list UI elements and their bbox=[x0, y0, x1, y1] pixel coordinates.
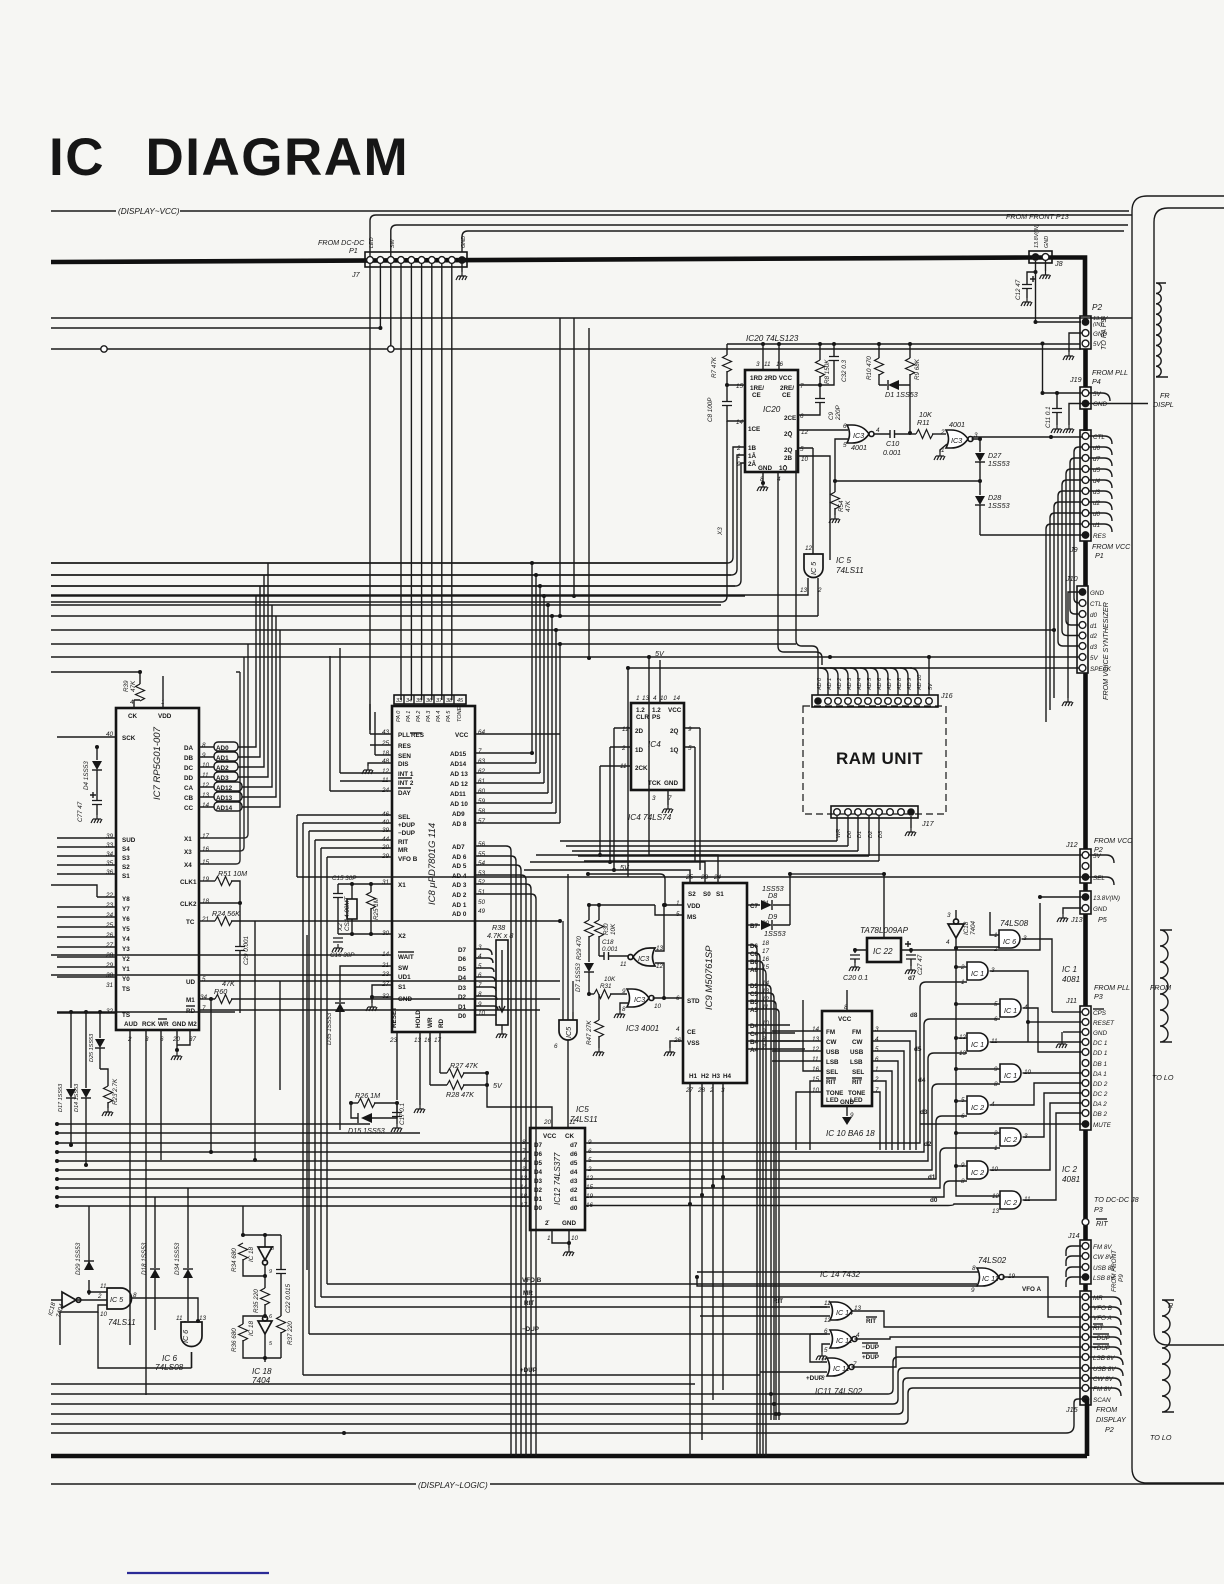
svg-text:FROM FRONT: FROM FRONT bbox=[1111, 1249, 1118, 1292]
wire inverter input from 13.8V riser bbox=[955, 910, 957, 948]
svg-text:47K: 47K bbox=[130, 680, 137, 692]
wire UD1 long bbox=[51, 974, 392, 976]
wire MR line bbox=[321, 1296, 1082, 1298]
wire J7 pins down bbox=[369, 264, 371, 730]
svg-text:34: 34 bbox=[200, 994, 208, 1001]
wire IC3 input5 down to R54 line bbox=[835, 439, 848, 481]
svg-text:TCK: TCK bbox=[648, 780, 661, 787]
capacitor C8 100P bbox=[727, 385, 745, 421]
gate IC14 7432 bbox=[820, 1270, 862, 1324]
wire RIT line bbox=[315, 1306, 827, 1308]
gate IC1 c bbox=[959, 1033, 998, 1057]
svg-text:AD11: AD11 bbox=[450, 791, 466, 798]
svg-text:D5: D5 bbox=[534, 1160, 543, 1167]
svg-text:31: 31 bbox=[106, 982, 113, 989]
svg-text:WR: WR bbox=[427, 1017, 434, 1028]
svg-text:DB 2: DB 2 bbox=[1093, 1111, 1107, 1118]
wire extra left lines bbox=[57, 1124, 420, 1133]
svg-text:+DUP: +DUP bbox=[862, 1354, 879, 1361]
svg-text:D25 1SS53: D25 1SS53 bbox=[89, 1033, 95, 1062]
svg-text:3: 3 bbox=[756, 361, 760, 368]
svg-text:RIT: RIT bbox=[524, 1300, 534, 1307]
svg-text:LED: LED bbox=[826, 1097, 839, 1104]
svg-text:GND: GND bbox=[398, 996, 412, 1003]
svg-text:38: 38 bbox=[446, 698, 453, 704]
svg-text:d7: d7 bbox=[1093, 456, 1101, 463]
svg-text:AD 2: AD 2 bbox=[452, 892, 467, 899]
svg-text:DB: DB bbox=[184, 755, 194, 762]
svg-text:DC 1: DC 1 bbox=[1093, 1040, 1107, 1047]
wire IC10 VCC up bbox=[846, 990, 848, 1011]
wire IC20 pin10 down bbox=[798, 456, 830, 560]
wire bottom bus lines left bbox=[51, 1384, 695, 1433]
svg-text:D7 1SS53: D7 1SS53 bbox=[575, 963, 582, 992]
ground (IC3 input1) bbox=[940, 444, 947, 452]
svg-text:PS: PS bbox=[652, 714, 660, 721]
svg-text:25: 25 bbox=[381, 740, 390, 747]
svg-text:4: 4 bbox=[876, 427, 880, 434]
svg-text:1Ā: 1Ā bbox=[748, 452, 757, 460]
svg-text:8: 8 bbox=[202, 742, 206, 749]
IC8 top pins bbox=[394, 695, 471, 722]
gate IC2 b bbox=[993, 1128, 1028, 1152]
svg-text:D1: D1 bbox=[534, 1196, 543, 1203]
wire IC22 top to 5V bbox=[883, 874, 885, 938]
wire J7 LED up and right bbox=[370, 215, 1132, 256]
svg-text:10K: 10K bbox=[610, 923, 617, 935]
svg-text:D1: D1 bbox=[458, 1004, 467, 1011]
svg-text:H2: H2 bbox=[701, 1073, 710, 1080]
svg-text:USB: USB bbox=[826, 1049, 840, 1056]
svg-text:d8: d8 bbox=[910, 1012, 918, 1019]
svg-text:R35 220: R35 220 bbox=[253, 1289, 260, 1313]
wire 13.8V rail to P2 bbox=[51, 317, 1132, 319]
capacitor C12 47 bbox=[1027, 272, 1036, 298]
wire J7 pin10 up and right bbox=[462, 231, 1124, 252]
svg-text:11: 11 bbox=[569, 1119, 576, 1126]
wire IC3 mirrored pins bbox=[655, 905, 664, 998]
wire CE left bbox=[660, 1021, 683, 1031]
svg-text:5: 5 bbox=[824, 1347, 828, 1354]
svg-text:H1: H1 bbox=[689, 1073, 698, 1080]
svg-text:AD7: AD7 bbox=[452, 844, 465, 851]
wire WAIT long bbox=[51, 954, 392, 956]
svg-text:IC5: IC5 bbox=[564, 1026, 573, 1038]
svg-text:RD: RD bbox=[438, 1018, 445, 1028]
svg-text:3: 3 bbox=[478, 944, 482, 951]
wire +DUP line bbox=[303, 1374, 760, 1376]
svg-text:21: 21 bbox=[201, 916, 209, 923]
svg-text:SCK: SCK bbox=[122, 735, 136, 742]
svg-text:WR: WR bbox=[158, 1021, 169, 1028]
wire J12 5V long left bbox=[649, 854, 1082, 856]
svg-text:4: 4 bbox=[875, 1036, 879, 1043]
wire long node line y481 bbox=[835, 480, 980, 482]
wire IC1a out bbox=[990, 971, 1029, 1042]
diode D18 1SS53 bbox=[154, 1197, 156, 1330]
ground (IC8 GND pin32) bbox=[372, 985, 392, 1003]
svg-text:LSB: LSB bbox=[850, 1059, 863, 1066]
gate IC11 b bbox=[820, 1357, 857, 1382]
svg-text:61: 61 bbox=[478, 778, 485, 785]
capacitor C11 0.1 bbox=[1056, 393, 1058, 425]
wire IC6 output bbox=[1022, 939, 1053, 1012]
svg-text:1D: 1D bbox=[635, 747, 644, 754]
svg-text:4001: 4001 bbox=[851, 443, 867, 452]
svg-text:IC DIAGRAM: IC DIAGRAM bbox=[49, 128, 409, 187]
svg-text:FROM DC-DC: FROM DC-DC bbox=[318, 238, 365, 247]
capacitor C29 0.001 bbox=[239, 903, 241, 1013]
svg-text:5: 5 bbox=[875, 1046, 879, 1053]
wire IC20 left pins to left bus bbox=[51, 447, 745, 563]
svg-text:J10: J10 bbox=[1065, 574, 1078, 583]
svg-text:D2: D2 bbox=[534, 1187, 543, 1194]
svg-text:R31: R31 bbox=[600, 983, 612, 990]
connector J17 bbox=[831, 806, 935, 838]
wire IC9 right data pins bbox=[747, 945, 766, 1456]
svg-text:MR: MR bbox=[398, 847, 408, 854]
wire RD long bbox=[199, 1009, 540, 1011]
resistor R10 470 bbox=[878, 344, 880, 385]
gate IC6 74LS08 (bottom) bbox=[155, 1315, 207, 1372]
svg-text:25: 25 bbox=[105, 922, 114, 929]
svg-text:VFO A: VFO A bbox=[1093, 1315, 1112, 1322]
wire D17/D14 bottoms join bus bbox=[69, 1143, 73, 1147]
svg-text:DISPLAY: DISPLAY bbox=[1096, 1415, 1127, 1424]
wire J10 left loops bbox=[1041, 609, 1079, 646]
svg-text:1SS53: 1SS53 bbox=[988, 459, 1010, 468]
svg-text:SEL: SEL bbox=[826, 1069, 838, 1076]
capacitor C17 0.1 bbox=[396, 1103, 398, 1124]
svg-text:−DUP: −DUP bbox=[522, 1326, 539, 1333]
svg-text:AD15: AD15 bbox=[450, 751, 467, 758]
wire 5V rail over IC20 bbox=[727, 343, 1080, 345]
svg-text:5: 5 bbox=[269, 1341, 273, 1347]
svg-text:AD 1: AD 1 bbox=[452, 902, 467, 909]
IC12 74LS377 bbox=[520, 1119, 594, 1242]
svg-text:R25 1M: R25 1M bbox=[373, 897, 380, 920]
wire J15 pin loops right bbox=[1089, 1297, 1123, 1396]
gate IC1 a bbox=[960, 962, 995, 986]
svg-text:D35 1SS53: D35 1SS53 bbox=[326, 1012, 333, 1045]
svg-text:RIT: RIT bbox=[866, 1318, 876, 1325]
diode D27 1SS53 bbox=[979, 439, 981, 452]
svg-text:CK: CK bbox=[128, 713, 138, 720]
svg-text:2RE/: 2RE/ bbox=[780, 385, 794, 392]
svg-text:18: 18 bbox=[762, 940, 770, 947]
svg-text:15: 15 bbox=[736, 383, 744, 390]
svg-text:IC20: IC20 bbox=[763, 405, 781, 414]
gate IC5 74LS11 (lower) bbox=[554, 1020, 577, 1050]
wire J14 arcs left bbox=[1066, 1246, 1082, 1287]
svg-text:PLL: PLL bbox=[398, 732, 410, 739]
wire IC9 H-pin junction dots bbox=[688, 1202, 692, 1206]
wire MUTE long left bbox=[920, 1123, 1082, 1125]
svg-text:39: 39 bbox=[106, 833, 114, 840]
svg-text:TO PA P9: TO PA P9 bbox=[1099, 319, 1108, 350]
wire IC8 bottom stubs bbox=[397, 1032, 440, 1100]
svg-text:74LS08: 74LS08 bbox=[1000, 919, 1029, 928]
svg-text:P3: P3 bbox=[1094, 992, 1103, 1001]
svg-text:2Q: 2Q bbox=[784, 447, 793, 454]
IC7 RP5G01-007 bbox=[116, 699, 199, 1030]
svg-text:11: 11 bbox=[620, 961, 627, 968]
wire 13.8V from J8 down to P2 bbox=[1036, 261, 1082, 322]
svg-text:X3: X3 bbox=[184, 849, 192, 856]
svg-text:−DUP: −DUP bbox=[1093, 1335, 1111, 1342]
svg-text:d6: d6 bbox=[1093, 445, 1101, 452]
svg-text:IC5: IC5 bbox=[576, 1105, 589, 1114]
svg-text:D29 1SS53: D29 1SS53 bbox=[75, 1242, 82, 1275]
svg-text:C17 0.1: C17 0.1 bbox=[399, 1103, 406, 1125]
resistor R26 1M bbox=[351, 1102, 358, 1104]
svg-text:2: 2 bbox=[940, 429, 945, 436]
wire bus group B bbox=[51, 605, 818, 616]
resistor R60 47K bbox=[199, 998, 211, 1000]
svg-text:D3: D3 bbox=[458, 985, 467, 992]
svg-text:RIT: RIT bbox=[773, 1298, 783, 1305]
svg-text:IC 14: IC 14 bbox=[836, 1308, 853, 1317]
svg-text:UD1: UD1 bbox=[398, 974, 411, 981]
svg-text:Y2: Y2 bbox=[122, 956, 130, 963]
svg-text:X1: X1 bbox=[184, 836, 192, 843]
svg-text:C29 0.001: C29 0.001 bbox=[243, 936, 250, 965]
ground (IC9 VSS) bbox=[670, 1041, 683, 1048]
IC20 74LS123 bbox=[736, 334, 809, 483]
svg-text:TONE: TONE bbox=[826, 1090, 843, 1097]
svg-text:58: 58 bbox=[478, 808, 486, 815]
svg-text:J15: J15 bbox=[1065, 1405, 1079, 1414]
IC7 bottom pins bbox=[124, 1019, 197, 1043]
svg-text:CTL: CTL bbox=[1093, 434, 1105, 441]
svg-text:VCC: VCC bbox=[668, 707, 682, 714]
svg-text:C22 0.015: C22 0.015 bbox=[285, 1283, 292, 1313]
wire RES long left bbox=[980, 534, 1082, 536]
svg-text:IC3: IC3 bbox=[951, 436, 962, 445]
svg-text:S3: S3 bbox=[122, 855, 130, 862]
wire VFO B line bbox=[327, 1283, 977, 1285]
svg-text:36: 36 bbox=[426, 698, 433, 704]
IC7 left pins bbox=[105, 731, 136, 1019]
svg-text:CSA4.00MT: CSA4.00MT bbox=[344, 896, 351, 931]
wire IC4 pins bbox=[600, 728, 700, 766]
svg-text:8: 8 bbox=[478, 991, 482, 998]
ground (J7 GND pin) bbox=[456, 272, 467, 280]
svg-text:FROM PLL: FROM PLL bbox=[1092, 368, 1128, 377]
wire AD cable to J16 bbox=[796, 450, 818, 695]
svg-text:SEL: SEL bbox=[852, 1069, 864, 1076]
resistor R47 27K bbox=[598, 994, 600, 1048]
wire J11 pins left bbox=[1028, 1012, 1082, 1040]
ground (IC4 GND) bbox=[667, 790, 669, 805]
IC4 74LS74 bbox=[620, 695, 692, 822]
svg-text:35: 35 bbox=[416, 698, 423, 704]
svg-text:d1: d1 bbox=[570, 1196, 578, 1203]
svg-text:5V: 5V bbox=[1093, 391, 1102, 398]
connector J15 FROM DISPLAY P2 bbox=[1065, 1291, 1127, 1434]
wire J19 GND loop right bbox=[1089, 393, 1110, 401]
svg-text:J17: J17 bbox=[921, 819, 935, 828]
svg-text:36: 36 bbox=[106, 869, 114, 876]
wire rail B with junction bbox=[51, 327, 380, 329]
svg-text:P2: P2 bbox=[1092, 303, 1102, 312]
svg-text:AD 5: AD 5 bbox=[452, 863, 467, 870]
wire J17 drops left bbox=[837, 816, 879, 861]
svg-text:J7: J7 bbox=[351, 270, 361, 279]
svg-text:0.001: 0.001 bbox=[602, 946, 618, 953]
svg-text:CPS: CPS bbox=[1093, 1010, 1107, 1017]
wire IC10 right pins bbox=[872, 1031, 916, 1150]
wire IC6 inputs bbox=[956, 912, 999, 947]
svg-text:CLR: CLR bbox=[636, 714, 649, 721]
wire thick drop from SCAN to bottom bus bbox=[1085, 1399, 1090, 1456]
svg-text:J8: J8 bbox=[1054, 259, 1063, 268]
svg-text:MR: MR bbox=[523, 1290, 533, 1297]
svg-text:IC 6: IC 6 bbox=[1003, 937, 1016, 946]
resistor R36 680 bbox=[243, 1316, 265, 1324]
svg-text:GND: GND bbox=[664, 780, 678, 787]
svg-text:FROM VCC: FROM VCC bbox=[1094, 836, 1133, 845]
svg-text:3: 3 bbox=[974, 432, 978, 439]
svg-text:R11: R11 bbox=[917, 418, 930, 427]
svg-text:1SS53: 1SS53 bbox=[764, 929, 786, 938]
svg-text:AUD: AUD bbox=[124, 1021, 138, 1028]
ground (J8 GND) bbox=[1045, 261, 1047, 271]
svg-text:D6: D6 bbox=[458, 956, 467, 963]
svg-text:B7: B7 bbox=[750, 923, 759, 930]
svg-text:TO DC-DC J8: TO DC-DC J8 bbox=[1094, 1195, 1139, 1204]
svg-text:Y5: Y5 bbox=[122, 926, 130, 933]
svg-text:C10: C10 bbox=[886, 439, 899, 448]
svg-text:IC 1: IC 1 bbox=[971, 1040, 984, 1049]
svg-text:DD 2: DD 2 bbox=[1093, 1081, 1108, 1088]
svg-text:IC 11: IC 11 bbox=[836, 1336, 853, 1345]
ground (IC10 GND) bbox=[846, 1106, 848, 1116]
svg-text:S1: S1 bbox=[398, 984, 406, 991]
svg-text:8: 8 bbox=[972, 1265, 976, 1272]
svg-text:13: 13 bbox=[199, 1315, 207, 1322]
svg-text:GND: GND bbox=[172, 1021, 186, 1028]
svg-text:IC 22: IC 22 bbox=[873, 947, 893, 956]
wire +DUP -DUP RIT MR VFOB drops bbox=[303, 823, 327, 1375]
svg-text:UD: UD bbox=[186, 979, 196, 986]
wire bottom thick bus bbox=[51, 1454, 1087, 1459]
svg-text:FM: FM bbox=[826, 1029, 835, 1036]
svg-text:FROM VOICE SYNTHESIZER: FROM VOICE SYNTHESIZER bbox=[1101, 602, 1110, 700]
wire bus group D 5V bbox=[51, 657, 649, 672]
svg-text:RIT: RIT bbox=[852, 1079, 862, 1086]
svg-text:CLK2: CLK2 bbox=[180, 901, 197, 908]
svg-text:+DUP: +DUP bbox=[520, 1367, 537, 1374]
svg-text:1Q̄: 1Q̄ bbox=[779, 463, 788, 472]
svg-text:2̄: 2̄ bbox=[545, 1219, 550, 1227]
svg-text:P1: P1 bbox=[349, 246, 358, 255]
svg-text:CW 8V: CW 8V bbox=[1093, 1376, 1114, 1383]
svg-text:D18 1SS53: D18 1SS53 bbox=[141, 1242, 148, 1275]
svg-text:D4: D4 bbox=[458, 975, 467, 982]
wire SEN DIS risers bbox=[330, 648, 375, 791]
ground (IC7 GND) bbox=[177, 1030, 190, 1050]
svg-text:RESET: RESET bbox=[391, 1007, 398, 1028]
svg-text:CE: CE bbox=[752, 392, 761, 399]
svg-text:SEL: SEL bbox=[1093, 875, 1105, 882]
svg-text:11: 11 bbox=[812, 1056, 819, 1063]
svg-text:VFO B: VFO B bbox=[522, 1277, 542, 1284]
wire J9 d-lines loop down to J10 bbox=[1074, 447, 1082, 603]
resistor R7 47K bbox=[727, 344, 745, 385]
svg-text:FM: FM bbox=[852, 1029, 861, 1036]
svg-text:IC3 4001: IC3 4001 bbox=[626, 1024, 659, 1033]
wire IC7 left pin stubs bbox=[57, 737, 116, 1013]
svg-text:FROM VCC: FROM VCC bbox=[1092, 542, 1131, 551]
wire bus group A bbox=[51, 563, 745, 596]
resistor R11 10K bbox=[910, 433, 916, 435]
diode D1 1SS53 bbox=[879, 384, 910, 386]
svg-text:TS: TS bbox=[122, 986, 130, 993]
svg-text:d2: d2 bbox=[570, 1187, 578, 1194]
wire IC5 output bbox=[131, 1298, 198, 1321]
wire right outer cable outline bbox=[1132, 196, 1224, 1483]
svg-text:16: 16 bbox=[762, 956, 770, 963]
wire IC7 bottom pin drops bbox=[130, 1030, 161, 1395]
svg-text:2D: 2D bbox=[635, 728, 644, 735]
svg-text:IC12 74LS377: IC12 74LS377 bbox=[553, 1152, 562, 1205]
svg-text:IC 1: IC 1 bbox=[971, 969, 984, 978]
svg-text:2: 2 bbox=[820, 1357, 825, 1364]
svg-text:C77 47: C77 47 bbox=[77, 801, 84, 822]
svg-text:DA 1: DA 1 bbox=[1093, 1071, 1107, 1078]
wire IC12 d outputs right to gate bends bbox=[585, 977, 936, 1143]
svg-text:17: 17 bbox=[202, 833, 210, 840]
svg-text:H3: H3 bbox=[712, 1073, 721, 1080]
wire scallop bundle mid bbox=[1160, 930, 1172, 1042]
wire IC20 pin12 to IC3 input bbox=[798, 429, 848, 431]
svg-text:CB: CB bbox=[184, 795, 194, 802]
wire mid verticals group bbox=[320, 620, 340, 815]
svg-text:IC 2: IC 2 bbox=[1062, 1165, 1077, 1174]
gate IC1 d bbox=[994, 1064, 1032, 1088]
svg-text:FM 8V: FM 8V bbox=[1093, 1386, 1112, 1393]
svg-text:IC 14 7432: IC 14 7432 bbox=[820, 1270, 861, 1279]
wire bus group C bbox=[51, 630, 1054, 644]
svg-text:5V: 5V bbox=[1093, 853, 1102, 860]
svg-text:14: 14 bbox=[202, 802, 210, 809]
svg-text:GND: GND bbox=[1044, 236, 1050, 248]
svg-text:IC3: IC3 bbox=[634, 995, 645, 1004]
svg-text:16: 16 bbox=[812, 1066, 820, 1073]
wire D7-D0 into R38 bbox=[475, 949, 498, 1015]
svg-text:d2: d2 bbox=[1090, 633, 1098, 640]
svg-text:R54: R54 bbox=[838, 500, 845, 512]
svg-text:1.2: 1.2 bbox=[652, 707, 661, 714]
svg-text:d7: d7 bbox=[570, 1142, 578, 1149]
wire right inner cable outline bbox=[1154, 208, 1224, 1345]
gate IC3 4001 (right) bbox=[940, 420, 978, 454]
svg-text:43: 43 bbox=[382, 729, 390, 736]
svg-text:(DISPLAY~VCC): (DISPLAY~VCC) bbox=[118, 207, 180, 216]
svg-text:FROM FRONT P13: FROM FRONT P13 bbox=[1006, 212, 1069, 221]
wire SEL drop to J12 bbox=[296, 815, 298, 877]
svg-text:R30: R30 bbox=[603, 923, 610, 935]
gate IC6 74LS08 bbox=[993, 919, 1029, 953]
svg-text:10: 10 bbox=[812, 1087, 820, 1094]
resistor R54 47K bbox=[834, 481, 836, 515]
svg-text:Y4: Y4 bbox=[122, 936, 130, 943]
svg-text:220P: 220P bbox=[835, 404, 842, 421]
svg-text:VCC: VCC bbox=[543, 1133, 557, 1140]
svg-text:4001: 4001 bbox=[949, 420, 965, 429]
ground (J17) bbox=[910, 816, 912, 828]
